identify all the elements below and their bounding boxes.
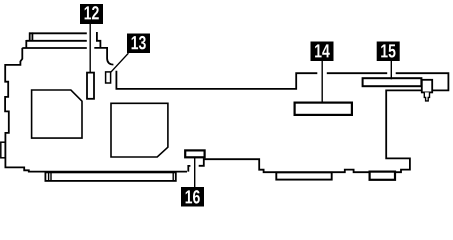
connector stack line 2 <box>26 40 87 42</box>
bottom edge hook left of component 16 <box>188 166 190 172</box>
board top edge segment with curl <box>94 48 113 65</box>
gap in top edge at leader 15 <box>387 72 396 75</box>
RF connector stem plug <box>424 92 429 101</box>
RF connector square <box>422 80 432 93</box>
component 15 (modem bar) <box>363 78 422 86</box>
leader line 15 <box>390 61 392 79</box>
stack notch vertical B <box>31 32 33 40</box>
connector stack line 1 (top-left) <box>29 32 87 34</box>
stack end vertical C <box>25 40 27 48</box>
board top edge staircase right of leader 12 <box>97 32 101 48</box>
callout 14 <box>311 42 334 62</box>
chip U1 (top-left big square, chamfered top-right) <box>32 90 82 138</box>
stack end vertical A <box>29 32 31 40</box>
battery connector (bottom middle) <box>276 172 331 179</box>
bottom right hanging connector <box>370 172 395 180</box>
leader line 13 <box>111 53 129 72</box>
callout 13 <box>127 34 150 54</box>
callout 16 <box>181 187 204 207</box>
component 12 (DC-in board connector) <box>87 73 94 99</box>
docking connector inner line right <box>172 172 174 181</box>
docking connector inner line left 1 <box>48 172 50 181</box>
docking connector (bottom long) <box>45 172 175 181</box>
leader line 16 <box>194 158 196 187</box>
chip U2 (middle big square, chamfered bottom-right) <box>111 103 168 157</box>
callout 15 <box>377 42 400 62</box>
callout 12 <box>80 4 103 24</box>
left side protruding connector <box>1 142 5 158</box>
leader line 14 <box>321 61 323 104</box>
connector stack line 3 <box>22 47 87 49</box>
gap in top edge at leader 14 <box>317 72 327 75</box>
leader line 12 <box>89 24 91 73</box>
board left edge <box>5 48 187 172</box>
board mid/right outline <box>116 71 448 172</box>
docking connector inner line left 2 <box>50 172 52 181</box>
component 16 (small bottom connector) <box>185 150 204 157</box>
component 14 (memory connector) <box>295 103 352 115</box>
component 13 (small connector) <box>106 72 111 83</box>
